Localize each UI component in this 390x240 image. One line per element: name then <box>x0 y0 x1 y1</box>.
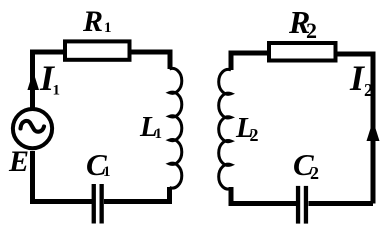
wire: bottom-left segment from C1 to bottom-left corner, up to source <box>33 151 93 202</box>
svg-text:E: E <box>8 145 29 178</box>
svg-text:R: R <box>82 5 103 38</box>
resistor R2 <box>269 43 336 61</box>
svg-text:1: 1 <box>103 164 111 180</box>
inductor L1 <box>170 68 182 188</box>
inductor L2 <box>219 69 231 189</box>
capacitor C1 <box>92 184 96 224</box>
wire: C2 to bottom-left corner of right loop, up to coil L2 bottom <box>231 187 296 204</box>
wire: source top to top-left corner <box>30 52 35 108</box>
resistor R1 <box>65 41 130 59</box>
svg-text:2: 2 <box>364 80 373 100</box>
current arrow I1 <box>27 72 39 91</box>
svg-text:1: 1 <box>155 126 163 142</box>
svg-text:1: 1 <box>53 83 61 99</box>
wire: right loop top-left corner to coil L2 top <box>231 53 269 70</box>
wire: R2 right terminal to top-right corner, down right side <box>335 54 373 204</box>
svg-text:2: 2 <box>306 18 317 43</box>
capacitor C2 <box>296 186 300 224</box>
svg-text:2: 2 <box>250 125 259 145</box>
svg-text:2: 2 <box>310 163 319 183</box>
wire: R1 right terminal to top-right corner, down to coil L1 top <box>130 52 171 69</box>
wire: left loop top, from top-left corner to R1 left terminal <box>33 52 66 55</box>
source E (sine generator) <box>13 109 52 148</box>
current arrow I2 <box>367 121 380 142</box>
svg-text:1: 1 <box>104 20 112 36</box>
wire: coil L1 bottom to bottom-right corner of left loop <box>104 187 170 202</box>
wire: bottom of right loop, right corner to C2 <box>309 201 374 206</box>
